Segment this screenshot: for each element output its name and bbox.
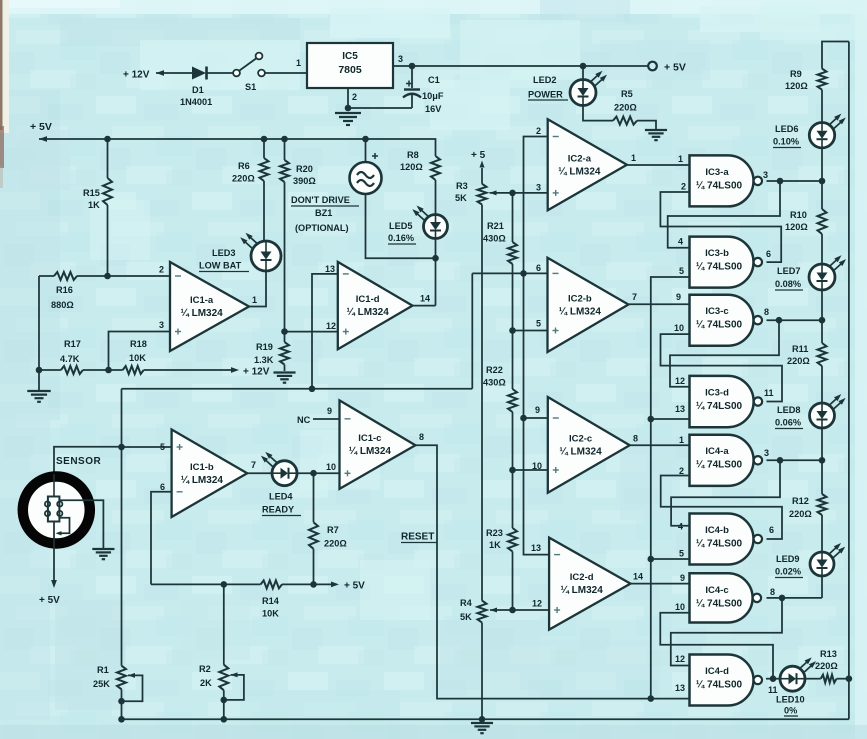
svg-text:(OPTIONAL): (OPTIONAL) [295, 223, 349, 233]
label LED10 [776, 695, 805, 717]
sensor crystal [45, 474, 63, 522]
svg-text:10: 10 [675, 602, 685, 612]
svg-text:+ 5V: + 5V [30, 121, 52, 133]
svg-text:IC3-a: IC3-a [705, 167, 729, 178]
resistor R20 [280, 160, 289, 182]
label +5 R3 [471, 150, 486, 161]
svg-text:R10: R10 [790, 210, 807, 220]
svg-text:220Ω: 220Ω [815, 661, 838, 671]
svg-text:1K: 1K [489, 540, 501, 550]
svg-text:3: 3 [159, 320, 164, 330]
svg-text:220Ω: 220Ω [787, 356, 810, 366]
svg-text:¼ 74LS00: ¼ 74LS00 [696, 598, 743, 609]
pot R4 wiper [490, 607, 513, 612]
label R22 [483, 365, 506, 388]
terminal +5V [648, 62, 686, 74]
svg-text:LED9: LED9 [776, 554, 800, 564]
wire R6 top [263, 139, 265, 158]
svg-text:+ 5: + 5 [471, 150, 486, 161]
wire LED6 to node [821, 148, 823, 181]
wire R17 row [39, 367, 123, 374]
svg-text:+ 5V: + 5V [664, 62, 686, 74]
svg-text:IC1-c: IC1-c [358, 433, 381, 444]
svg-text:¼ LM324: ¼ LM324 [349, 446, 392, 457]
svg-text:5: 5 [679, 266, 684, 276]
svg-text:IC3-b: IC3-b [705, 248, 729, 259]
svg-text:R3: R3 [456, 181, 468, 191]
wire node to R10 [821, 181, 823, 209]
wire IC4-d pin13 row [651, 698, 690, 700]
gate IC3-d [690, 376, 763, 427]
capacitor C1 [403, 66, 421, 108]
label D1 [180, 85, 212, 107]
wire IC4-c out [767, 595, 823, 602]
svg-text:0.10%: 0.10% [773, 137, 799, 147]
wire IC2-b out [628, 303, 689, 305]
resistor R6 [260, 158, 269, 181]
svg-text:10K: 10K [129, 353, 146, 363]
resistor R22 [508, 389, 517, 412]
label R8 [400, 150, 423, 172]
wire IC3-c out [767, 317, 826, 324]
label C1 [422, 75, 444, 114]
wire R3 top arrow [479, 161, 484, 184]
svg-text:25K: 25K [93, 679, 110, 689]
label IC4-c pins [675, 573, 775, 612]
label IC4-b pins [678, 522, 774, 536]
svg-text:+ 5V: + 5V [39, 595, 60, 606]
wire IC2-a pin3 row [509, 190, 548, 197]
svg-text:430Ω: 430Ω [483, 378, 506, 388]
label R9 [785, 69, 808, 91]
svg-text:¼ LM324: ¼ LM324 [558, 166, 601, 177]
svg-text:READY: READY [262, 505, 294, 515]
svg-text:880Ω: 880Ω [51, 300, 74, 310]
label R17 [60, 339, 81, 364]
LED10 [780, 657, 816, 691]
svg-text:2: 2 [536, 126, 541, 136]
label LED5 [388, 221, 416, 244]
svg-text:R19: R19 [256, 342, 273, 352]
wire right rail [846, 42, 853, 720]
svg-text:2K: 2K [200, 678, 212, 688]
svg-text:10K: 10K [262, 609, 279, 619]
svg-text:13: 13 [675, 683, 685, 693]
label LED7 [775, 266, 803, 290]
label R20 [293, 164, 316, 186]
svg-text:9: 9 [327, 406, 332, 416]
wire R20 to pin12 [281, 182, 288, 335]
svg-text:R18: R18 [130, 339, 147, 349]
svg-text:LED8: LED8 [777, 405, 801, 415]
wire BZ1 top [365, 139, 367, 162]
svg-text:R8: R8 [407, 150, 419, 160]
ground R19 [273, 373, 295, 383]
wire IC2-c pin10 row [513, 469, 548, 471]
resistor R9 [818, 69, 827, 90]
svg-text:13: 13 [325, 264, 335, 274]
label LED2 POWER [528, 75, 568, 100]
svg-text:R14: R14 [262, 596, 280, 606]
svg-text:R1: R1 [97, 665, 109, 675]
label IC2-c pins [532, 405, 638, 471]
resistor R15 [103, 178, 112, 205]
resistor R16 [54, 272, 77, 280]
svg-text:¼ LM324: ¼ LM324 [180, 308, 223, 319]
resistor R12 [818, 494, 827, 515]
wire R7 bottom [313, 549, 315, 585]
svg-text:6: 6 [536, 263, 541, 273]
label IC2-d pins [531, 543, 643, 609]
svg-text:R13: R13 [820, 649, 837, 659]
ground sensor [92, 549, 114, 559]
label R3 [455, 181, 468, 203]
svg-text:2: 2 [352, 92, 357, 102]
svg-text:2: 2 [679, 466, 684, 476]
svg-text:1: 1 [252, 295, 257, 305]
wire R19 top [284, 332, 286, 342]
wire LED4 to IC1-c [297, 470, 340, 477]
wire R19 bottom [284, 365, 286, 371]
buzzer BZ1 [350, 153, 382, 194]
svg-text:LED10: LED10 [776, 695, 805, 705]
wire R5 to ground [637, 121, 656, 129]
wire signal left riser [118, 389, 125, 666]
svg-text:¼ 74LS00: ¼ 74LS00 [696, 401, 743, 412]
resistor R18 [123, 366, 144, 374]
svg-text:¼ LM324: ¼ LM324 [347, 307, 390, 318]
svg-text:+ 5V: + 5V [344, 581, 365, 592]
svg-text:14: 14 [420, 294, 430, 304]
wire IC4-b pin5 row [651, 549, 690, 560]
svg-text:6: 6 [769, 525, 774, 535]
label IC3-d pins [675, 376, 774, 414]
label LED6 [773, 124, 801, 148]
LED4 [261, 452, 297, 486]
op-amp IC2-d [549, 538, 630, 630]
svg-text:IC3-c: IC3-c [705, 306, 728, 317]
wire R12 to LED9 [821, 515, 823, 552]
resistor R19 [280, 342, 289, 365]
svg-text:7805: 7805 [338, 64, 362, 76]
label IC4-d pins [675, 654, 778, 695]
svg-text:120Ω: 120Ω [400, 162, 423, 172]
ground R5 [645, 130, 667, 140]
wire R1 bottom [118, 689, 125, 722]
wire IC4-d out [766, 675, 780, 682]
svg-text:4.7K: 4.7K [60, 354, 80, 364]
svg-text:IC2-c: IC2-c [569, 433, 592, 444]
svg-text:¼ 74LS00: ¼ 74LS00 [696, 539, 743, 550]
label IC2-a pins [536, 126, 636, 193]
gate IC4-d [690, 655, 763, 706]
wire +5 row left [151, 581, 261, 588]
svg-text:5: 5 [536, 319, 541, 329]
svg-text:0.06%: 0.06% [775, 418, 801, 428]
svg-text:1K: 1K [88, 200, 100, 210]
wire R3-R4 link [481, 205, 483, 601]
svg-text:¼ LM324: ¼ LM324 [181, 475, 224, 486]
label IC1-c pins [326, 406, 424, 472]
gate IC4-c [690, 573, 762, 622]
wire R7 top [313, 473, 315, 522]
svg-text:R16: R16 [56, 285, 73, 295]
resistor R21 [508, 242, 517, 264]
wire R20 top [284, 139, 286, 160]
svg-text:R22: R22 [486, 365, 503, 375]
wire R4 bottom [481, 623, 483, 720]
wire R9 to LED6 [821, 90, 823, 123]
svg-text:IC1-b: IC1-b [190, 462, 214, 473]
label IC4-a pins [679, 435, 769, 476]
svg-text:3: 3 [536, 183, 541, 193]
op-amp IC2-c [548, 397, 630, 493]
wire node to R11 [821, 320, 823, 343]
svg-text:R17: R17 [64, 339, 81, 349]
svg-text:IC4-d: IC4-d [705, 666, 729, 677]
wire IC2-d pin12 row [513, 609, 550, 611]
wire bottom rail [122, 716, 849, 723]
resistor R13 [821, 675, 837, 683]
wire node to R12 [821, 460, 823, 494]
label R6 [232, 161, 255, 184]
label IC1-a pins [159, 265, 257, 331]
svg-text:9: 9 [680, 573, 685, 583]
label R15 [83, 188, 100, 210]
svg-text:5: 5 [679, 549, 684, 559]
resistor R4 [478, 601, 487, 623]
svg-text:2: 2 [681, 182, 686, 192]
label R19 [254, 342, 274, 365]
wire R21 top [512, 193, 514, 242]
svg-text:LOW BAT: LOW BAT [199, 261, 242, 271]
svg-text:9: 9 [676, 292, 681, 302]
ground IC5 [335, 113, 361, 125]
LED9 [810, 543, 845, 576]
svg-text:POWER: POWER [528, 90, 563, 100]
wire IC1-d pin12 [285, 321, 338, 332]
wire signal horizontal [122, 386, 473, 393]
label R2 [199, 664, 212, 688]
label R1 [93, 665, 110, 689]
svg-text:LED2: LED2 [533, 75, 557, 85]
svg-text:R12: R12 [792, 496, 809, 506]
gate IC3-a [690, 155, 763, 206]
svg-text:¼ 74LS00: ¼ 74LS00 [696, 320, 743, 331]
svg-text:8: 8 [770, 587, 775, 597]
svg-text:+ 12V: + 12V [123, 70, 150, 81]
label +12V mid [243, 367, 270, 378]
svg-text:R11: R11 [792, 344, 808, 354]
label IC3-c pins [674, 292, 769, 333]
svg-text:IC1-a: IC1-a [190, 295, 214, 306]
svg-text:220Ω: 220Ω [232, 174, 255, 184]
label IC2-b pins [536, 263, 637, 329]
svg-text:R21: R21 [487, 221, 504, 231]
wire R8 to LED5 [435, 180, 437, 215]
label S1 [245, 82, 256, 92]
wire IC3-c to IC3-d [670, 320, 779, 387]
label SENSOR [56, 456, 102, 467]
svg-text:1: 1 [678, 154, 683, 164]
svg-text:0.02%: 0.02% [775, 567, 801, 577]
wire sensor plate to ground [60, 500, 104, 548]
label IC3-b pins [678, 237, 771, 277]
wire LED9 bottom [821, 576, 823, 598]
ground bottom [471, 723, 493, 733]
wire top right link [822, 42, 849, 69]
wire IC1-d pin13 [312, 274, 338, 389]
svg-text:5: 5 [160, 442, 165, 452]
op-amp IC1-c [340, 400, 416, 489]
wire IC3-a to IC3-b [668, 181, 780, 248]
wire reset bus [648, 277, 690, 702]
wire R2 bottom [221, 690, 228, 722]
wire R10 to LED7 [821, 234, 823, 264]
wire IC1-b pin6 [151, 492, 172, 585]
diode D1 [177, 67, 233, 80]
svg-text:11: 11 [768, 685, 778, 695]
svg-text:390Ω: 390Ω [293, 176, 316, 186]
resistor R3 [478, 184, 487, 205]
wire sensor loop [56, 518, 70, 536]
svg-text:IC4-c: IC4-c [705, 585, 728, 596]
svg-text:IC1-d: IC1-d [356, 294, 380, 305]
svg-text:C1: C1 [428, 75, 440, 85]
gate IC4-a [690, 435, 763, 486]
svg-text:430Ω: 430Ω [483, 234, 506, 244]
label LED8 [775, 405, 803, 429]
svg-text:IC4-b: IC4-b [705, 525, 729, 536]
svg-text:220Ω: 220Ω [614, 103, 637, 113]
svg-text:7: 7 [251, 460, 256, 470]
LED7 [809, 255, 846, 290]
svg-text:1: 1 [679, 435, 684, 445]
label R7 [324, 525, 347, 549]
svg-text:IC2-b: IC2-b [568, 293, 592, 304]
wire LED5 bottom [432, 239, 439, 306]
svg-text:0.16%: 0.16% [388, 233, 414, 243]
resistor R7 [309, 522, 318, 549]
svg-text:¼ LM324: ¼ LM324 [561, 585, 604, 596]
wire IC1-a out [249, 271, 266, 307]
label BZ1 [291, 195, 359, 233]
pot R2 wiper [224, 672, 244, 700]
label +5V rail [30, 121, 52, 133]
LED8 [810, 394, 846, 428]
wire R2 top [223, 584, 225, 664]
wire IC2-b pin6 row [472, 272, 547, 274]
LED6 [809, 114, 845, 148]
svg-text:120Ω: 120Ω [785, 222, 808, 232]
LED3 [240, 233, 281, 271]
wire R22 bottom [509, 412, 516, 473]
svg-text:11: 11 [764, 388, 774, 398]
resistor R10 [818, 209, 827, 234]
svg-text:R2: R2 [199, 664, 211, 674]
svg-text:R15: R15 [83, 188, 100, 198]
svg-text:8: 8 [419, 432, 424, 442]
svg-text:4: 4 [678, 237, 683, 247]
wire R13 to rail [837, 678, 849, 680]
wire IC1-d out [413, 305, 436, 307]
label RESET [401, 532, 437, 543]
svg-text:R5: R5 [621, 89, 633, 99]
wire R23 bottom [509, 552, 516, 614]
label IC1-b pins [160, 442, 256, 492]
label R21 [483, 221, 506, 244]
wire IC3-d pin13 row [651, 418, 690, 420]
wire BZ1 bottom [366, 194, 436, 258]
pot R3 wiper [490, 190, 513, 195]
svg-text:5K: 5K [460, 612, 472, 622]
svg-text:5K: 5K [455, 193, 467, 203]
svg-text:10: 10 [532, 461, 542, 471]
ground left [27, 391, 50, 402]
wire left ground branch [36, 276, 43, 390]
svg-text:220Ω: 220Ω [789, 509, 812, 519]
svg-text:¼ 74LS00: ¼ 74LS00 [696, 262, 743, 273]
svg-text:IC2-d: IC2-d [570, 572, 594, 583]
wire IC1-b pin5 [122, 446, 172, 448]
svg-text:6: 6 [766, 249, 771, 259]
resistor R17 [61, 366, 83, 374]
wire R15 top [107, 139, 109, 178]
wire IC2-d out [631, 583, 691, 585]
wire IC3-a out [767, 178, 826, 185]
svg-text:+ 12V: + 12V [243, 367, 270, 378]
svg-text:12: 12 [326, 321, 336, 331]
op-amp IC2-b [548, 258, 629, 352]
wire LED7 to node [821, 290, 823, 320]
wire +5 row arrow [282, 581, 365, 592]
svg-text:13: 13 [531, 543, 541, 553]
wire R21 bottom [509, 264, 516, 334]
svg-text:R6: R6 [238, 161, 250, 171]
label R12 [789, 496, 812, 519]
svg-text:¼ LM324: ¼ LM324 [559, 306, 602, 317]
op-amp IC1-a [170, 262, 249, 351]
svg-text:LED3: LED3 [212, 248, 236, 258]
label LED9 [775, 554, 803, 578]
wire IC3-b out loop [660, 192, 781, 262]
gate IC3-b [690, 237, 763, 288]
wire IC3-d out loop [661, 334, 783, 401]
resistor R5 [613, 117, 637, 125]
svg-text:R7: R7 [327, 525, 339, 535]
svg-text:D1: D1 [192, 85, 204, 95]
label R18 [129, 339, 147, 363]
label R11 [787, 344, 810, 366]
svg-text:1: 1 [296, 58, 301, 68]
wire IC2-b pin5 row [513, 330, 548, 332]
wire sensor top [54, 447, 122, 474]
LED5 [412, 206, 447, 239]
label R14 [262, 596, 280, 619]
label IC3-a pins [678, 154, 768, 192]
resistor R11 [818, 343, 827, 366]
resistor R2 [219, 665, 228, 691]
svg-text:LED7: LED7 [777, 266, 801, 276]
svg-text:LED4: LED4 [269, 492, 293, 502]
svg-text:2: 2 [159, 265, 164, 275]
label NC [297, 415, 340, 425]
svg-text:R4: R4 [460, 598, 473, 608]
svg-text:IC3-d: IC3-d [705, 387, 729, 398]
wire LED10 to R13 [805, 678, 821, 680]
svg-text:RESET: RESET [401, 532, 434, 543]
wire IC5 pin3 +5V [393, 54, 648, 69]
